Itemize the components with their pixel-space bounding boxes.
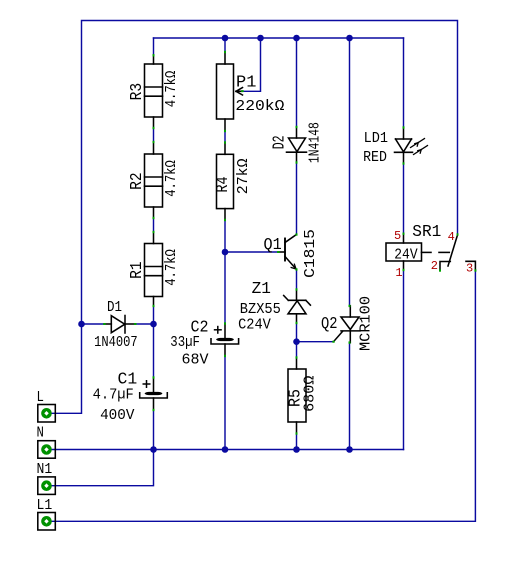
svg-text:LD1: LD1	[364, 131, 388, 147]
svg-text:4: 4	[448, 230, 455, 244]
svg-text:680Ω: 680Ω	[303, 375, 319, 412]
svg-text:Q2: Q2	[321, 314, 338, 333]
svg-text:4.7kΩ: 4.7kΩ	[164, 70, 180, 107]
svg-text:SR1: SR1	[412, 222, 441, 241]
svg-text:MCR100: MCR100	[359, 296, 375, 351]
svg-text:R2: R2	[127, 172, 146, 190]
svg-text:N1: N1	[37, 462, 53, 478]
svg-text:Z1: Z1	[252, 279, 271, 298]
svg-text:D2: D2	[270, 135, 289, 149]
svg-text:BZX55: BZX55	[240, 302, 281, 318]
svg-text:P1: P1	[236, 72, 256, 91]
svg-text:4.7kΩ: 4.7kΩ	[164, 249, 180, 286]
svg-text:L: L	[37, 390, 44, 406]
svg-text:N: N	[37, 426, 44, 442]
svg-text:1N4007: 1N4007	[94, 335, 138, 351]
svg-text:R4: R4	[213, 176, 232, 192]
svg-text:C1815: C1815	[303, 229, 319, 278]
svg-text:L1: L1	[37, 498, 53, 514]
svg-text:24V: 24V	[394, 248, 418, 264]
svg-text:D1: D1	[107, 300, 122, 316]
svg-text:1N4148: 1N4148	[308, 122, 324, 163]
svg-text:68V: 68V	[182, 352, 209, 368]
svg-text:R1: R1	[127, 261, 146, 279]
svg-text:C2: C2	[191, 317, 209, 336]
svg-text:5: 5	[394, 229, 401, 243]
svg-text:C1: C1	[118, 370, 138, 389]
svg-text:Q1: Q1	[264, 235, 282, 254]
svg-text:RED: RED	[363, 150, 387, 166]
svg-text:3: 3	[466, 262, 473, 276]
svg-text:33µF: 33µF	[170, 335, 200, 351]
svg-text:1: 1	[395, 266, 402, 280]
svg-text:27kΩ: 27kΩ	[236, 158, 252, 194]
svg-text:2: 2	[431, 259, 438, 273]
svg-text:4.7kΩ: 4.7kΩ	[164, 160, 180, 197]
svg-text:4.7µF: 4.7µF	[93, 388, 134, 404]
svg-text:C24V: C24V	[238, 317, 271, 333]
svg-text:R3: R3	[127, 83, 146, 101]
svg-text:220kΩ: 220kΩ	[235, 99, 284, 115]
svg-text:400V: 400V	[100, 408, 135, 424]
